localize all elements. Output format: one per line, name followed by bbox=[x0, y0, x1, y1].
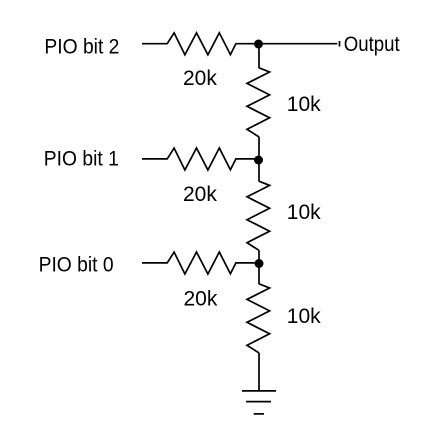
resistor 10k #3 (vertical) bbox=[247, 284, 270, 353]
ground bar 3 bbox=[254, 413, 264, 415]
node dot row 1 bbox=[254, 40, 263, 49]
resistor 20k row 1 (horizontal) bbox=[142, 33, 255, 55]
wire dot3 to resistor 10k #3 bbox=[258, 264, 260, 284]
svg-text:20k: 20k bbox=[183, 183, 217, 206]
resistor 10k #2 (vertical) bbox=[247, 181, 270, 250]
svg-text:10k: 10k bbox=[287, 305, 321, 328]
resistor 10k #1 (vertical) bbox=[247, 68, 270, 137]
svg-text:10k: 10k bbox=[287, 201, 321, 224]
svg-text:20k: 20k bbox=[184, 288, 218, 311]
wire dot2 to resistor 10k #2 bbox=[258, 160, 260, 181]
svg-text:PIO bit 0: PIO bit 0 bbox=[39, 253, 114, 276]
resistor 20k row 2 (horizontal) bbox=[142, 148, 255, 170]
node dot row 2 bbox=[254, 156, 263, 165]
ground bar 1 bbox=[242, 390, 276, 392]
svg-text:20k: 20k bbox=[183, 67, 217, 90]
svg-text:Output: Output bbox=[344, 33, 400, 56]
wire resistor 10k #3 to ground bbox=[258, 353, 260, 391]
svg-text:PIO bit 1: PIO bit 1 bbox=[44, 147, 119, 170]
node dot row 3 bbox=[255, 259, 264, 268]
svg-text:PIO bit 2: PIO bit 2 bbox=[44, 35, 119, 58]
wire dot1 to resistor 10k #1 bbox=[258, 44, 260, 68]
ground bar 2 bbox=[246, 401, 271, 403]
resistor 20k row 3 (horizontal) bbox=[142, 252, 255, 274]
output terminal tick bbox=[339, 41, 341, 47]
svg-text:10k: 10k bbox=[287, 93, 321, 116]
wire resistor 10k #1 to dot2 bbox=[258, 137, 260, 160]
wire resistor 10k #2 to dot3 bbox=[258, 250, 260, 263]
wire to output bbox=[263, 43, 337, 45]
